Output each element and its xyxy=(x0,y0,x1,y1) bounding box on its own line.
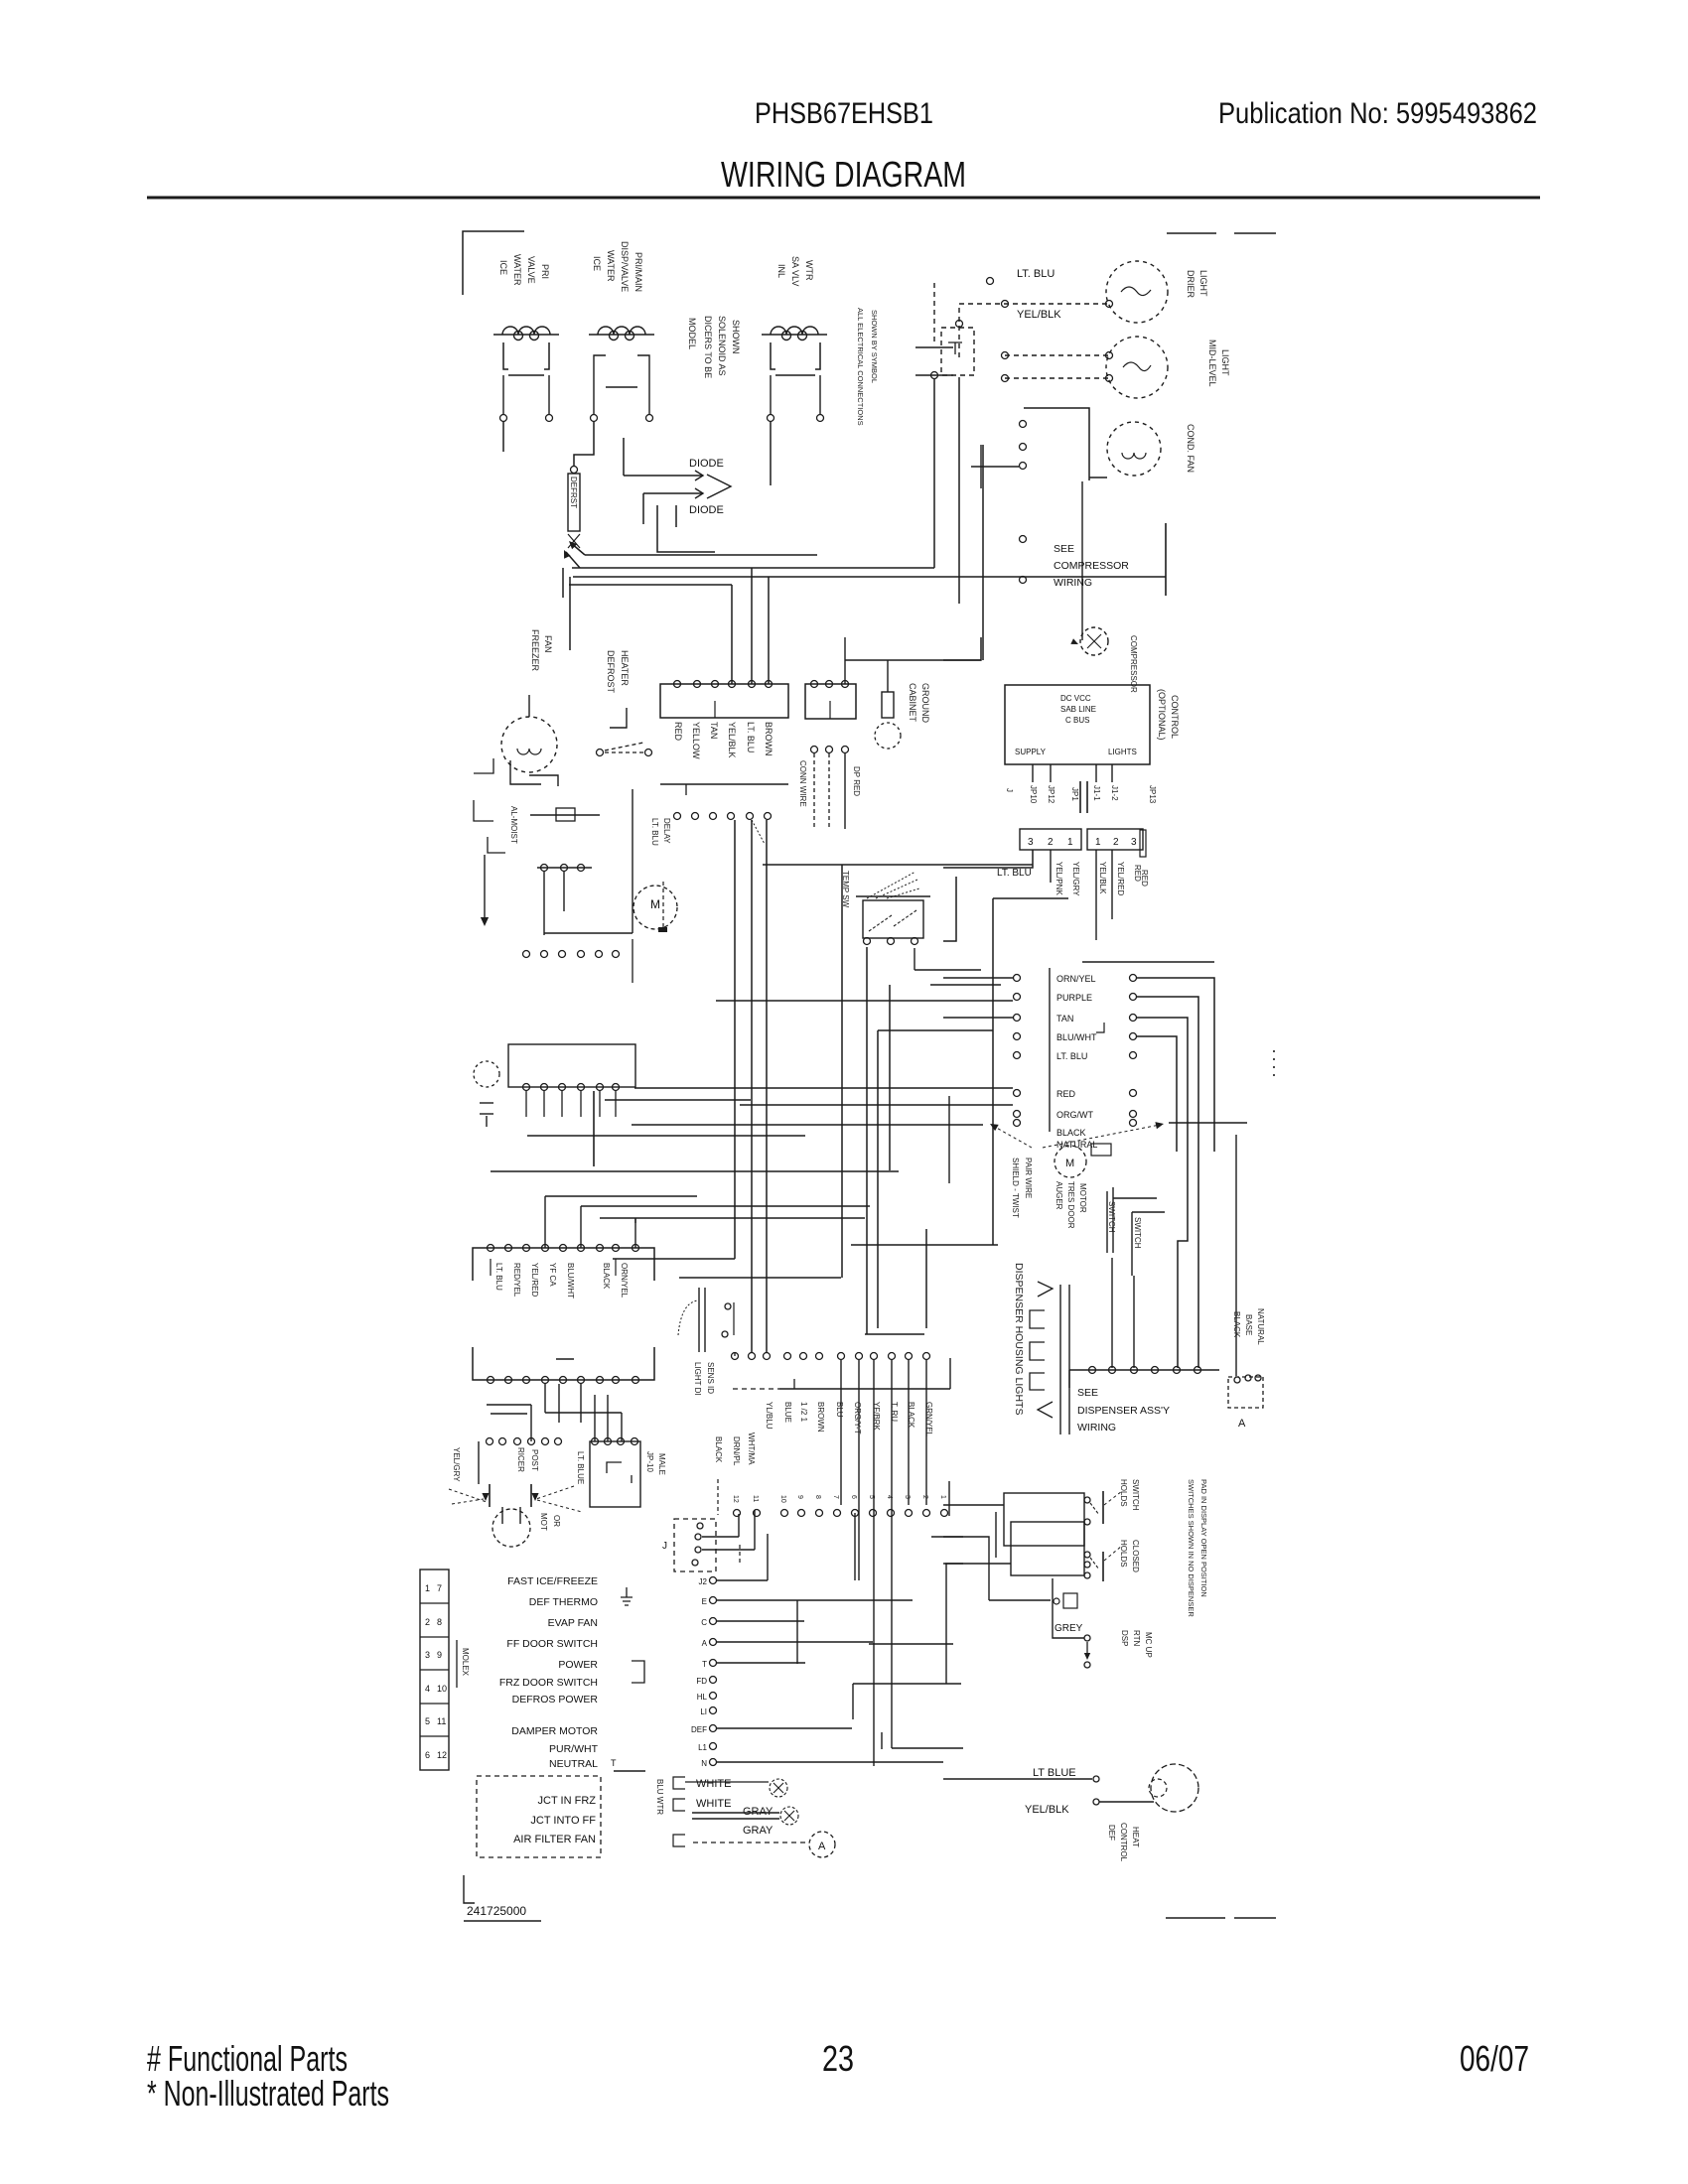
svg-text:LT. BLU: LT. BLU xyxy=(746,722,756,752)
mid conn pin 4 xyxy=(578,951,585,958)
J4 divider 3 xyxy=(420,1669,449,1671)
center row pin 6 xyxy=(816,1353,823,1360)
mold switch t2 xyxy=(645,750,652,756)
relay feed left 1 xyxy=(943,977,1013,979)
relay pin 1 xyxy=(811,681,818,688)
wire J4 pin2 xyxy=(1111,850,1113,919)
svg-text:FD: FD xyxy=(696,1677,707,1686)
svg-text:MOT: MOT xyxy=(539,1513,548,1531)
air filter dashed wire xyxy=(693,1842,808,1843)
edge row pin 2 xyxy=(754,1510,761,1517)
svg-text:PRI/MAIN: PRI/MAIN xyxy=(633,252,643,292)
svg-text:8: 8 xyxy=(814,1495,821,1499)
light switch t2 xyxy=(561,865,568,872)
evaporator terminal box xyxy=(660,684,788,718)
wire cond fan feed xyxy=(1089,477,1107,478)
edge row pin 8 xyxy=(870,1510,877,1517)
auger contact arrow 2 xyxy=(531,1493,538,1501)
evap box pin 4 xyxy=(729,681,736,688)
center row pin 7 xyxy=(838,1353,845,1360)
J4 divider 4 xyxy=(420,1703,449,1705)
upper connector box xyxy=(508,1044,635,1087)
J2 pin b xyxy=(695,1534,701,1540)
cond fan pin 3 xyxy=(1020,463,1027,470)
conn2 mark xyxy=(607,1462,622,1473)
compressor node 2 xyxy=(1020,577,1027,584)
svg-text:10: 10 xyxy=(779,1495,786,1503)
svg-text:ICE: ICE xyxy=(592,256,602,271)
svg-text:PAD IN DISPLAY OPEN POSITION: PAD IN DISPLAY OPEN POSITION xyxy=(1199,1479,1208,1597)
svg-text:1: 1 xyxy=(939,1495,946,1499)
holder contact 1 xyxy=(1090,1503,1099,1515)
bus wire 2 bend xyxy=(566,552,580,568)
svg-text:6: 6 xyxy=(850,1495,857,1499)
mid conn stub xyxy=(632,939,633,983)
right riser short xyxy=(948,1096,950,1183)
valve L3 body xyxy=(771,342,775,369)
moist hook 2 xyxy=(474,800,493,821)
imc drop 1 xyxy=(544,1384,546,1413)
wire into diode top xyxy=(623,438,625,476)
conn2 tick xyxy=(631,1475,633,1483)
svg-text:BROWN: BROWN xyxy=(816,1402,825,1433)
svg-text:JCT IN FRZ: JCT IN FRZ xyxy=(538,1795,597,1807)
auger contact bar 2 xyxy=(530,1484,532,1507)
evap pin dotted diagonal xyxy=(752,820,765,844)
valve L3 terminal 2 xyxy=(817,415,824,422)
valve L1 body right xyxy=(544,342,549,369)
svg-text:TAN: TAN xyxy=(1056,1014,1073,1024)
long rail right xyxy=(763,864,1033,866)
moist hook 3 xyxy=(488,837,505,853)
svg-text:ALL ELECTRICAL CONNECTIONS: ALL ELECTRICAL CONNECTIONS xyxy=(856,308,865,426)
bulb lead xyxy=(486,1116,488,1127)
wire drop L xyxy=(766,820,768,1352)
center row drop x740 xyxy=(734,1352,736,1356)
bulb element 1 xyxy=(480,1102,493,1104)
wire diode return xyxy=(642,493,644,524)
dispenser row pin 1 xyxy=(1089,1367,1096,1374)
svg-text:DELAY: DELAY xyxy=(662,818,671,844)
left corner E xyxy=(943,1537,989,1600)
svg-text:WHITE: WHITE xyxy=(696,1798,731,1810)
diode arrow top xyxy=(695,471,703,480)
riser terminal xyxy=(931,372,938,379)
mid-level light bulb xyxy=(1106,337,1168,398)
relay low pin 1 xyxy=(811,747,818,753)
cond fan cross tick xyxy=(980,445,982,488)
edge row pin 9 xyxy=(888,1510,895,1517)
lower conn1 pin 6 xyxy=(555,1438,562,1445)
upper box pin 5 xyxy=(597,1084,604,1091)
capacitor plate 1 xyxy=(1079,781,1081,813)
relay block left pin 7 xyxy=(1014,1111,1021,1118)
dashed wire mid light b xyxy=(1005,377,1109,379)
compressor overload xyxy=(1080,627,1108,655)
svg-text:4: 4 xyxy=(425,1684,430,1694)
dispenser rail a xyxy=(1059,1285,1061,1434)
svg-text:WATER: WATER xyxy=(606,250,616,282)
svg-text:DSP: DSP xyxy=(1120,1630,1129,1646)
svg-text:WIRING: WIRING xyxy=(1054,577,1092,589)
svg-text:T: T xyxy=(611,1758,617,1768)
relay block right pin 2 xyxy=(1130,994,1137,1001)
relay block right pin 1 xyxy=(1130,975,1137,982)
svg-text:1: 1 xyxy=(425,1583,430,1593)
lt blue node xyxy=(1093,1776,1099,1782)
svg-text:SA VLV: SA VLV xyxy=(790,256,800,286)
water valve coil L3 xyxy=(762,327,827,341)
imc bottom pin 7 xyxy=(597,1377,604,1384)
imc bottom pin 2 xyxy=(505,1377,512,1384)
dashed wire mid light a xyxy=(1005,354,1109,356)
center row pin 5 xyxy=(800,1353,807,1360)
right drop A xyxy=(945,1564,947,1684)
ice maker control box bottom xyxy=(473,1347,654,1380)
holder bar 2 xyxy=(1102,1552,1104,1581)
relay feed mid xyxy=(605,1099,751,1101)
bus wire 3 xyxy=(573,576,1166,578)
svg-text:GREY: GREY xyxy=(1055,1623,1083,1634)
diode arrow bottom xyxy=(695,488,703,498)
left vert D xyxy=(948,1481,950,1516)
svg-text:FAN: FAN xyxy=(543,635,553,653)
cross drop B xyxy=(852,1684,854,1719)
J4 divider 5 xyxy=(420,1735,449,1737)
edge row pin 11 xyxy=(923,1510,930,1517)
svg-text:10: 10 xyxy=(437,1684,447,1694)
J2 wire b xyxy=(702,1536,739,1538)
svg-text:DP RED: DP RED xyxy=(852,766,861,796)
drier wire node 2 xyxy=(1106,301,1113,308)
upper box pin 4 xyxy=(578,1084,585,1091)
mid conn pin 2 xyxy=(541,951,548,958)
riser tick 2 xyxy=(915,374,953,376)
J2 wire c xyxy=(702,1549,755,1551)
svg-text:DIODE: DIODE xyxy=(689,504,724,516)
svg-text:N: N xyxy=(701,1759,707,1768)
temp rail 3 xyxy=(716,1000,1013,1002)
left vert G xyxy=(995,1512,997,1558)
svg-text:LIGHT: LIGHT xyxy=(1198,270,1208,297)
svg-text:LIGHT: LIGHT xyxy=(1220,349,1230,376)
evap rail pin 3 xyxy=(710,813,717,820)
cond fan motor coils xyxy=(1122,453,1146,459)
J2 stub up b xyxy=(738,1514,740,1537)
chevron left xyxy=(1038,1402,1053,1418)
svg-text:JP-10: JP-10 xyxy=(645,1451,654,1472)
temp switch fan arc xyxy=(867,872,919,898)
relay wire right 5 xyxy=(1082,961,1214,963)
center row pin 9 xyxy=(871,1353,878,1360)
svg-text:ORN/YEL: ORN/YEL xyxy=(1056,974,1096,984)
svg-text:WTR: WTR xyxy=(804,260,814,281)
jct arrow dotted 2 xyxy=(536,1486,574,1499)
svg-text:CONN WIRE: CONN WIRE xyxy=(798,760,807,807)
svg-text:YEL/BLK: YEL/BLK xyxy=(1025,1804,1069,1816)
svg-text:BROWN: BROWN xyxy=(764,722,774,756)
J1 wire 7 xyxy=(717,1761,943,1763)
svg-text:A: A xyxy=(702,1639,708,1648)
chassis ground 1 xyxy=(770,1779,787,1797)
cabinet ground resistor xyxy=(882,692,894,718)
svg-text:LI: LI xyxy=(700,1707,707,1716)
switch1 bar b xyxy=(1112,1187,1114,1253)
svg-text:FREEZER: FREEZER xyxy=(530,629,540,672)
wire board drop xyxy=(992,898,994,1245)
auger dotted 1 xyxy=(452,1499,484,1504)
imc drop 6 xyxy=(621,1413,623,1441)
svg-text:RED: RED xyxy=(673,722,683,742)
imc drop 2 xyxy=(558,1384,560,1423)
svg-text:SWITCH: SWITCH xyxy=(1107,1201,1116,1233)
drawing corner mark xyxy=(464,1875,475,1903)
svg-text:YL/BLU: YL/BLU xyxy=(765,1402,774,1430)
sensor fan arc xyxy=(678,1300,698,1335)
bus wire 1 bend xyxy=(571,543,585,555)
mold switch t1 xyxy=(597,750,604,756)
relay pin 2 xyxy=(826,681,833,688)
grey node 2 xyxy=(1084,1662,1090,1668)
mid light node 1 xyxy=(1002,352,1009,359)
condenser fan motor xyxy=(1107,422,1161,476)
J1 column pin 8 xyxy=(710,1707,717,1714)
svg-text:ORN/YEL: ORN/YEL xyxy=(620,1263,629,1298)
wire J3 pin3 xyxy=(943,850,1033,868)
svg-text:J: J xyxy=(1005,788,1014,792)
svg-text:GRAY: GRAY xyxy=(743,1806,774,1818)
valve L2 terminal 1 xyxy=(591,415,598,422)
temp drop 4 xyxy=(925,1229,927,1328)
svg-text:M: M xyxy=(650,897,660,911)
svg-text:NATURAL: NATURAL xyxy=(1256,1308,1265,1345)
cross wire 7 xyxy=(679,1277,841,1279)
wire compressor lead xyxy=(845,659,981,661)
svg-text:JP10: JP10 xyxy=(1029,785,1038,804)
ice auger motor xyxy=(492,1509,530,1547)
cabinet ground bulb xyxy=(875,723,901,749)
center row pin 12 xyxy=(923,1353,930,1360)
evap rail pin 6 xyxy=(765,813,772,820)
svg-text:YEL/GRY: YEL/GRY xyxy=(1071,862,1080,896)
upper box pin 6 xyxy=(613,1084,620,1091)
svg-text:BLUE: BLUE xyxy=(783,1402,792,1423)
board lead 1 xyxy=(1032,764,1034,782)
valve L3 leg left xyxy=(770,375,772,415)
wire from valve L1 xyxy=(502,422,504,452)
svg-text:SUPPLY: SUPPLY xyxy=(1015,748,1047,756)
holder pin 5 xyxy=(1084,1572,1090,1578)
shield arrow head 1 xyxy=(990,1124,999,1131)
jp terminal strip xyxy=(1140,830,1146,857)
imc inner tick xyxy=(556,1358,574,1360)
jp10 dash xyxy=(717,1479,719,1515)
relay dash lead 1 xyxy=(813,753,815,829)
svg-text:7: 7 xyxy=(437,1583,442,1593)
svg-text:J1-2: J1-2 xyxy=(1110,785,1119,801)
water valve coil L1 xyxy=(493,327,559,341)
svg-text:PHSB67EHSB1: PHSB67EHSB1 xyxy=(755,97,933,130)
dashed riser xyxy=(933,283,935,342)
svg-text:11: 11 xyxy=(752,1495,759,1502)
relay feed left 2 xyxy=(943,1017,1013,1019)
svg-text:RTN: RTN xyxy=(1132,1630,1141,1647)
svg-text:PURPLE: PURPLE xyxy=(1056,993,1092,1003)
svg-text:YEL/PNK: YEL/PNK xyxy=(1055,862,1063,895)
relay block right pin 5 xyxy=(1130,1052,1137,1059)
dispenser row pin 5 xyxy=(1174,1367,1181,1374)
J2 pin a xyxy=(697,1523,703,1529)
svg-text:YELLOW: YELLOW xyxy=(691,722,701,759)
valve L2 crossbar xyxy=(606,386,637,388)
valve L1 leg right xyxy=(548,375,550,415)
defrost control thermostat xyxy=(1151,1764,1198,1812)
center row pin 2 xyxy=(749,1353,756,1360)
svg-text:DEFROS POWER: DEFROS POWER xyxy=(512,1694,599,1706)
bus drop d xyxy=(751,568,753,684)
holder contact 2 xyxy=(1090,1558,1099,1570)
edge row pin 5 xyxy=(816,1510,823,1517)
auger lead 2 xyxy=(519,1507,521,1524)
upper box pin 3 xyxy=(559,1084,566,1091)
compressor feed riser xyxy=(1081,481,1083,640)
temp rail 4 xyxy=(878,1029,993,1031)
svg-text:RED/YEL: RED/YEL xyxy=(512,1263,521,1297)
holder pin 1 xyxy=(1084,1497,1090,1503)
light switch rail xyxy=(537,867,592,869)
bus wire 4 xyxy=(569,584,732,586)
svg-text:DISP/VALVE: DISP/VALVE xyxy=(620,241,630,292)
shield wire right xyxy=(1169,1122,1247,1124)
dashed junction box xyxy=(941,328,974,375)
svg-text:3: 3 xyxy=(904,1495,911,1499)
svg-text:YEL/BLK: YEL/BLK xyxy=(727,722,737,758)
svg-text:SENS ID: SENS ID xyxy=(706,1362,715,1394)
svg-text:CONTROL: CONTROL xyxy=(1119,1823,1128,1862)
imc drop 3 xyxy=(580,1384,582,1423)
cabinet ground lead xyxy=(887,660,889,692)
relay low pin 3 xyxy=(842,747,849,753)
bimetal X stroke 1 xyxy=(568,534,580,548)
relay block right pin 6 xyxy=(1130,1090,1137,1097)
edge wire right xyxy=(892,1747,963,1749)
svg-text:YEL/BLK: YEL/BLK xyxy=(1098,862,1107,894)
bottom mark 2 xyxy=(1234,1917,1276,1919)
imc bottom pin 1 xyxy=(488,1377,494,1384)
relay wire right 3 xyxy=(1137,1018,1188,1368)
relay wire right 1 xyxy=(1137,978,1214,1152)
board connector J3 xyxy=(1020,829,1081,850)
relay block left pin 4 xyxy=(1014,1033,1021,1040)
switch2 feed xyxy=(1132,1211,1165,1213)
lower conn2 pin 3 xyxy=(618,1438,625,1445)
imc pair line 2 xyxy=(491,1413,527,1415)
lower conn1 pin 5 xyxy=(542,1438,549,1445)
compressor node 1 xyxy=(1020,536,1027,543)
edge row pin 7 xyxy=(852,1510,859,1517)
upper box stub 6 xyxy=(615,1091,617,1117)
freezer fan lead right xyxy=(529,775,558,786)
wire valve L2 to defrost xyxy=(574,422,594,467)
svg-text:CLOSED: CLOSED xyxy=(1131,1540,1140,1572)
short tick H xyxy=(881,1732,883,1749)
imc bottom pin 6 xyxy=(578,1377,585,1384)
svg-text:LIGHT DI: LIGHT DI xyxy=(693,1362,702,1396)
svg-text:LIGHTS: LIGHTS xyxy=(1108,748,1137,756)
imc rail xyxy=(545,1412,622,1414)
svg-text:DRIER: DRIER xyxy=(1186,270,1196,299)
svg-text:ICE: ICE xyxy=(498,260,508,275)
upper box stub 5 xyxy=(599,1091,601,1117)
wire board left xyxy=(943,877,956,941)
evap box pin 5 xyxy=(749,681,756,688)
neutral underline xyxy=(614,1770,645,1772)
relay lead up xyxy=(844,637,846,684)
imc inner tick 2 xyxy=(615,1259,617,1276)
svg-text:BLACK: BLACK xyxy=(1056,1128,1086,1138)
svg-text:C: C xyxy=(701,1618,707,1627)
cross wire 3 xyxy=(545,1195,697,1197)
temp switch t1 xyxy=(864,938,871,945)
valve L3 body right xyxy=(815,342,820,369)
moist control body xyxy=(556,808,575,821)
valve L1 terminal 2 xyxy=(546,415,553,422)
svg-text:BLACK: BLACK xyxy=(1232,1311,1241,1338)
wire cond riser xyxy=(982,445,984,660)
valve L1 body xyxy=(503,342,508,369)
junction dashed box xyxy=(477,1776,601,1857)
cross wire 4 xyxy=(581,1205,870,1207)
svg-text:DICERS TO BE: DICERS TO BE xyxy=(703,316,713,378)
svg-text:DISPENSER HOUSING LIGHTS: DISPENSER HOUSING LIGHTS xyxy=(1013,1263,1025,1415)
relay wire right 2 xyxy=(1137,997,1198,1368)
svg-text:J1-1: J1-1 xyxy=(1092,785,1101,801)
J2 pin c xyxy=(695,1547,701,1553)
holder switch box 2 xyxy=(1011,1522,1084,1575)
J1 column pin 1 xyxy=(710,1577,717,1584)
svg-text:DEF: DEF xyxy=(1107,1825,1116,1841)
valve L1 leg left xyxy=(502,375,504,415)
svg-text:MODEL: MODEL xyxy=(687,318,697,349)
center drop 4 xyxy=(908,1360,910,1505)
part number underline xyxy=(464,1920,541,1922)
svg-text:12: 12 xyxy=(437,1750,447,1760)
svg-text:3: 3 xyxy=(1028,837,1034,848)
svg-text:AL-MOIST: AL-MOIST xyxy=(509,806,518,844)
svg-text:GRN/YEL: GRN/YEL xyxy=(924,1402,933,1437)
defrost relay box xyxy=(805,684,856,719)
lower conn1 edge xyxy=(478,1441,480,1484)
lamp box pin 3 xyxy=(1255,1375,1261,1381)
lower conn2 pin 1 xyxy=(592,1438,599,1445)
freezer fan coils xyxy=(517,749,541,754)
imc top pin 5 xyxy=(560,1245,567,1252)
lamp box pin 1 xyxy=(1234,1377,1240,1383)
cross drop 2 xyxy=(580,1206,582,1248)
relay dash lead 2 xyxy=(828,753,830,829)
wire diode bottom loop xyxy=(657,505,715,552)
gray wire top xyxy=(692,1812,779,1814)
svg-text:BLU: BLU xyxy=(835,1402,844,1418)
bus drop a xyxy=(562,568,564,598)
freezer fan motor xyxy=(501,717,557,772)
relay solid lead xyxy=(844,753,846,829)
imc pair drop xyxy=(530,1405,532,1441)
J2 dashed connector xyxy=(674,1519,716,1571)
temp switch top bar xyxy=(856,895,930,897)
riser tick xyxy=(915,346,953,348)
svg-text:M: M xyxy=(1065,1158,1074,1169)
